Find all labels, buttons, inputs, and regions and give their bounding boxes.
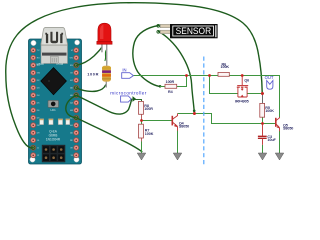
MOSFET Q6 IRF4905 (P-channel) bbox=[235, 77, 249, 104]
branch R4 right lead up bbox=[160, 76, 187, 87]
wire arduino pin to resistor bottom bbox=[76, 85, 105, 91]
R5 bottom lead bbox=[262, 117, 264, 123]
junction at R5 bottom / C3 top / Q5 base bbox=[261, 122, 264, 125]
pin holes left column bbox=[31, 48, 36, 158]
resistor 100R (realistic axial body) bbox=[87, 60, 111, 88]
svg-text:10uF: 10uF bbox=[267, 138, 276, 142]
mcu chip diamond bbox=[41, 68, 67, 95]
microcontroller terminal tag bbox=[110, 91, 146, 103]
step net y=111/121 bbox=[178, 114, 276, 124]
svg-text:OUT: OUT bbox=[265, 75, 274, 80]
net y=75.5: IN tag to Q5 collector corner bbox=[133, 76, 279, 118]
sensor module SENSOR bbox=[157, 24, 218, 38]
svg-text:IN: IN bbox=[122, 68, 126, 73]
OUT terminal tag bbox=[265, 75, 274, 89]
arduino nano board bbox=[29, 39, 82, 164]
ground under C3 bbox=[258, 153, 267, 160]
reset button bbox=[48, 100, 59, 107]
mounting hole bottom-left bbox=[30, 157, 35, 162]
svg-text:S8050: S8050 bbox=[283, 127, 293, 131]
svg-text:IRF4905: IRF4905 bbox=[235, 99, 249, 103]
svg-text:PCM: PCM bbox=[57, 62, 64, 66]
svg-text:100R: 100R bbox=[144, 107, 153, 111]
junction at MOSFET source drop / row1 bbox=[208, 74, 211, 77]
R7 bottom to ground bbox=[141, 138, 143, 142]
resistor R6 100K bbox=[218, 63, 229, 77]
svg-text:1N1O64R: 1N1O64R bbox=[46, 137, 61, 141]
junction node OUT (arc end / R5 top) bbox=[261, 92, 264, 95]
junction at sensor wire end / Q4 collector net bbox=[193, 112, 196, 115]
junction at R8/R7 divider / Q4 base bbox=[140, 119, 143, 122]
icsp header 2x3 bbox=[42, 145, 66, 163]
svg-text:GN: GN bbox=[70, 58, 74, 60]
capacitor C3 10uF bbox=[258, 124, 277, 145]
svg-text:S8050: S8050 bbox=[179, 125, 189, 129]
junction dots bbox=[140, 74, 264, 125]
R5 top lead bbox=[262, 95, 264, 104]
wire green squiggle on led-resistor leg bbox=[105, 50, 107, 61]
transistor Q4 S8050 (NPN) bbox=[172, 114, 189, 131]
usb connector bbox=[41, 27, 68, 63]
ARDUINO bbox=[29, 27, 82, 164]
Q4 base net bbox=[142, 120, 172, 122]
svg-text:SENSOR: SENSOR bbox=[176, 26, 212, 36]
junction at Q6 gate / row1 bbox=[241, 74, 244, 77]
MOSFET drain to OUT node bbox=[247, 93, 264, 95]
wire arduino pin to ground under R7 bbox=[66, 95, 142, 151]
blue dashed divider bbox=[203, 57, 205, 165]
PARTS bbox=[87, 23, 293, 164]
resistor R8 100R bbox=[139, 101, 154, 119]
C3 bottom to ground bbox=[262, 145, 264, 153]
svg-text:GN: GN bbox=[37, 73, 41, 75]
svg-text:100R: 100R bbox=[87, 71, 98, 76]
Q5 emitter to ground bbox=[279, 131, 281, 153]
IN terminal tag bbox=[122, 68, 134, 79]
mounting hole top-left bbox=[31, 40, 36, 45]
R8 top link from tag bbox=[135, 100, 142, 102]
R8-R7 junction verticals bbox=[141, 119, 143, 124]
smd leds row bbox=[40, 119, 70, 125]
junction at R4 right / row1 bbox=[185, 74, 188, 77]
svg-text:100R: 100R bbox=[166, 80, 175, 84]
transistor Q5 S8050 (NPN) bbox=[276, 117, 293, 131]
svg-text:w508: w508 bbox=[37, 62, 45, 66]
wire sensor pin2 curve down to step node bbox=[159, 32, 195, 112]
svg-text:microcontroller: microcontroller bbox=[110, 91, 146, 96]
svg-text:Q6: Q6 bbox=[244, 79, 249, 83]
svg-text:100K: 100K bbox=[221, 65, 230, 69]
LED D1 (red) bbox=[97, 23, 112, 64]
mounting hole top-right bbox=[75, 40, 80, 45]
svg-text:100K: 100K bbox=[265, 109, 274, 113]
branch MOSFET source drop bbox=[210, 76, 238, 94]
ground under Q5 bbox=[275, 153, 284, 160]
ground under Q4 bbox=[173, 153, 182, 160]
wire connection rings on pins bbox=[32, 63, 78, 149]
resistor R7 100K bbox=[139, 124, 154, 138]
ground under R7 bbox=[137, 153, 146, 160]
resistor R5 100K bbox=[260, 103, 274, 117]
mounting hole bottom-right bbox=[74, 157, 79, 162]
pin holes right column bbox=[74, 48, 79, 158]
Q4 emitter to ground bbox=[177, 131, 179, 154]
wire arduino pin to LED cathode bbox=[76, 47, 102, 65]
svg-text:100K: 100K bbox=[145, 132, 154, 136]
svg-text:LD1: LD1 bbox=[51, 108, 57, 112]
wire big arc from arduino left pin to OUT node bbox=[6, 3, 262, 148]
resistor R4 100R bbox=[165, 80, 177, 94]
wire sensor pin1 C-curve to R4 bbox=[133, 26, 160, 87]
wire arduino pin to microcontroller tag bbox=[76, 95, 131, 114]
